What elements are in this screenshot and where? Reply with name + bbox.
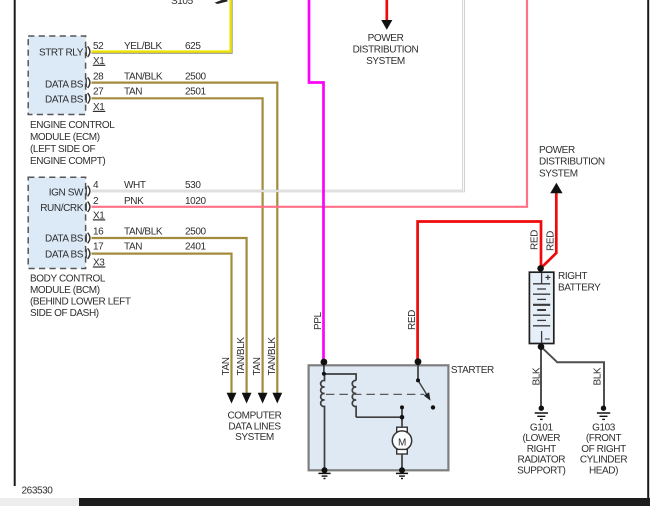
svg-text:DISTRIBUTION: DISTRIBUTION (353, 45, 419, 56)
svg-text:28: 28 (93, 72, 104, 83)
wire PPL entry to coil junction (323, 362, 325, 374)
switch blade (418, 380, 429, 397)
svg-text:(BEHIND LOWER LEFT: (BEHIND LOWER LEFT (30, 296, 131, 307)
wire TAN 2501 (ECM pin 27) (92, 98, 263, 393)
text G103 description (580, 422, 628, 476)
svg-text:TAN: TAN (124, 86, 142, 97)
svg-text:RADIATOR: RADIATOR (518, 455, 566, 466)
text power distribution system (right) (539, 145, 605, 179)
node motor branch junction (400, 415, 405, 420)
wire PNK 1020 (92, 0, 528, 207)
node battery negative junction (538, 343, 545, 350)
wire WHT 530 core (92, 0, 464, 191)
svg-text:1020: 1020 (185, 196, 206, 207)
svg-text:MODULE (BCM): MODULE (BCM) (30, 285, 100, 296)
wire switch entry (417, 362, 419, 381)
connector pin 2 arc (86, 202, 90, 213)
connector pin 28 arc (86, 77, 90, 88)
wire TAN/BLK 2500 (BCM pin 16) (92, 238, 247, 393)
svg-text:–: – (545, 334, 551, 345)
ground symbol starter left (318, 473, 330, 478)
svg-text:27: 27 (93, 86, 104, 97)
motor M brush bottom (397, 449, 408, 454)
wire coil2 bottom to motor branch (356, 416, 402, 418)
connector id X1 (ECM bottom) (93, 102, 106, 113)
coil L1 (pull-in winding) (321, 374, 325, 470)
wire RED battery to power distribution (541, 192, 557, 269)
wire BLK battery to G101 (540, 347, 542, 409)
svg-text:POWER: POWER (539, 145, 575, 156)
svg-text:TAN: TAN (252, 357, 263, 375)
ground symbol starter right (396, 473, 408, 478)
motor M circle (392, 431, 411, 450)
wire WHT 530 outline (92, 0, 464, 191)
wire YEL/BLK 625 (92, 0, 231, 52)
node battery positive junction (537, 265, 544, 272)
wire RED to starter (418, 222, 541, 362)
wire junction to coil 2 top (324, 374, 356, 381)
arrow computer data lines (wire TAN 2401) (227, 393, 237, 404)
svg-text:SYSTEM: SYSTEM (366, 56, 405, 67)
switch blade arrowhead (424, 392, 431, 400)
dashed actuation line (326, 393, 425, 395)
connector pin 4 arc (86, 186, 90, 197)
svg-text:COMPUTER: COMPUTER (227, 410, 281, 421)
svg-text:RED: RED (407, 310, 418, 330)
connector pin 52 arc (86, 46, 90, 57)
wire TAN/BLK 2500 (ECM pin 28) (92, 83, 278, 393)
svg-text:STARTER: STARTER (451, 365, 494, 376)
BCM connector box U2 (dashed) (28, 177, 85, 268)
svg-text:16: 16 (93, 226, 104, 237)
label RIGHT BATTERY (558, 271, 601, 294)
connector id X1 (ECM top) (93, 56, 106, 67)
svg-text:17: 17 (93, 241, 104, 252)
svg-text:DISTRIBUTION: DISTRIBUTION (539, 157, 605, 168)
wire TAN 2401 (BCM pin 17) (92, 254, 232, 393)
svg-text:BATTERY: BATTERY (558, 283, 601, 294)
coil L2 (hold-in winding) (352, 380, 356, 417)
svg-text:2: 2 (93, 196, 99, 207)
starter internal wiring (321, 362, 418, 470)
svg-text:TAN: TAN (221, 357, 232, 375)
svg-text:TAN/BLK: TAN/BLK (236, 337, 247, 376)
text BCM description (30, 273, 131, 319)
node coil junction (322, 372, 326, 376)
svg-text:SYSTEM: SYSTEM (235, 432, 274, 443)
svg-text:CYLINDER: CYLINDER (580, 455, 628, 466)
svg-text:RED: RED (546, 231, 557, 251)
svg-text:POWER: POWER (368, 33, 404, 44)
wire motor branch vertical (401, 407, 403, 427)
svg-text:S105: S105 (171, 0, 194, 7)
svg-text:DATA BS: DATA BS (45, 95, 84, 106)
svg-text:RED: RED (530, 230, 541, 250)
wire YEL/BLK 625 gray edge (92, 0, 232, 53)
svg-text:52: 52 (93, 41, 104, 52)
svg-text:HEAD): HEAD) (589, 466, 618, 477)
svg-text:RUN/CRK: RUN/CRK (40, 203, 83, 214)
battery box (529, 272, 553, 343)
svg-text:SIDE OF DASH): SIDE OF DASH) (30, 308, 99, 319)
svg-text:PPL: PPL (313, 311, 324, 330)
svg-text:(LEFT SIDE OF: (LEFT SIDE OF (30, 144, 95, 155)
svg-text:SUPPORT): SUPPORT) (517, 466, 565, 477)
svg-text:IGN SW: IGN SW (49, 187, 84, 198)
svg-text:2500: 2500 (185, 72, 206, 83)
svg-text:DATA BS: DATA BS (45, 249, 84, 260)
connector pin 16 arc (86, 233, 90, 244)
svg-text:2501: 2501 (185, 86, 206, 97)
svg-text:ENGINE COMPT): ENGINE COMPT) (30, 156, 105, 167)
svg-text:DATA BS: DATA BS (45, 234, 84, 245)
svg-text:(FRONT: (FRONT (586, 433, 622, 444)
motor M brush top (397, 427, 408, 432)
svg-text:OF RIGHT: OF RIGHT (581, 444, 626, 455)
bottom bar dark band (79, 498, 650, 506)
switch contact node (431, 405, 435, 409)
bottom bar light segment (0, 498, 79, 506)
frame right border (647, 0, 649, 498)
node starter ground left (322, 467, 328, 473)
svg-text:TAN/BLK: TAN/BLK (124, 226, 163, 237)
arrow to power distribution (top, down) (381, 20, 392, 30)
starter box (309, 365, 449, 470)
svg-text:530: 530 (185, 180, 201, 191)
connector pin 17 arc (86, 248, 90, 259)
node starter ground right (399, 467, 405, 473)
ground G101 symbol (535, 406, 548, 420)
node PPL at starter (321, 359, 328, 366)
ground G103 symbol (597, 406, 610, 420)
text G101 description (517, 422, 565, 476)
wire PPL (magenta) (309, 0, 324, 362)
svg-text:G103: G103 (592, 422, 616, 433)
node RED at starter (415, 358, 422, 365)
ECM connector box U1 (dashed) (28, 36, 85, 115)
svg-text:2500: 2500 (185, 226, 206, 237)
connector pin 27 arc (86, 93, 90, 104)
arrow to power distribution (right, up) (550, 183, 562, 194)
svg-text:TAN/BLK: TAN/BLK (124, 72, 163, 83)
text ECM description (30, 120, 115, 167)
svg-text:RIGHT: RIGHT (558, 271, 587, 282)
svg-text:DATA LINES: DATA LINES (228, 421, 281, 432)
svg-text:+: + (545, 273, 551, 284)
svg-text:(LOWER: (LOWER (522, 433, 560, 444)
wire RED from power distribution (top) (385, 0, 388, 21)
svg-text:SYSTEM: SYSTEM (539, 168, 578, 179)
wire BLK battery to G103 (541, 347, 604, 409)
wire motor to ground (401, 454, 403, 471)
frame left border (14, 0, 16, 486)
svg-text:BLK: BLK (532, 367, 543, 385)
svg-text:STRT RLY: STRT RLY (39, 48, 84, 59)
svg-text:MODULE (ECM): MODULE (ECM) (30, 132, 100, 143)
splice S105 arrow fragment (clipped at top) (215, 0, 229, 4)
svg-text:625: 625 (185, 41, 201, 52)
svg-text:TAN/BLK: TAN/BLK (267, 337, 278, 376)
svg-text:ENGINE CONTROL: ENGINE CONTROL (30, 120, 115, 131)
svg-text:YEL/BLK: YEL/BLK (124, 41, 163, 52)
connector id X1 (BCM) (93, 211, 106, 222)
svg-text:DATA BS: DATA BS (45, 79, 84, 90)
svg-text:263530: 263530 (22, 486, 54, 497)
arrow computer data lines (wire TAN 2501) (258, 393, 268, 404)
switch pivot node (416, 378, 420, 382)
svg-text:M: M (398, 437, 406, 448)
svg-text:G101: G101 (530, 422, 554, 433)
node motor branch top (400, 405, 404, 409)
arrow computer data lines (wire TAN/BLK 2500 BCM) (242, 393, 252, 404)
text computer data lines system (227, 410, 281, 443)
svg-text:PNK: PNK (124, 196, 144, 207)
svg-text:TAN: TAN (124, 241, 142, 252)
battery plates (533, 273, 550, 343)
svg-text:WHT: WHT (124, 180, 146, 191)
svg-text:RIGHT: RIGHT (527, 444, 556, 455)
svg-text:2401: 2401 (185, 241, 206, 252)
svg-text:BLK: BLK (593, 367, 604, 385)
svg-text:BODY CONTROL: BODY CONTROL (30, 273, 106, 284)
text power distribution system (top) (353, 33, 419, 67)
svg-text:4: 4 (93, 180, 99, 191)
connector id X3 (BCM) (93, 258, 106, 269)
arrow computer data lines (wire TAN/BLK 2500 ECM) (272, 393, 282, 404)
